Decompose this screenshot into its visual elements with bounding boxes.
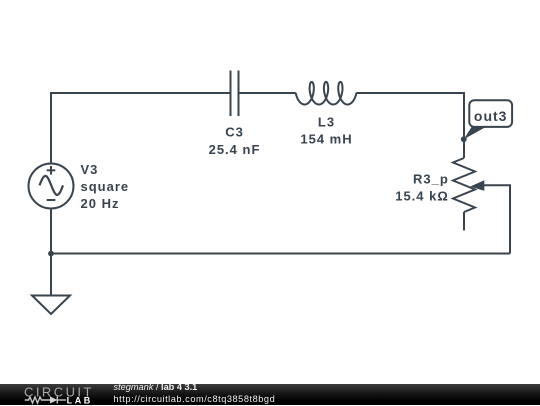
wire node to resistor top (463, 139, 465, 158)
svg-text:20 Hz: 20 Hz (81, 196, 120, 211)
V3 plus sign (47, 166, 56, 175)
svg-text:LAB: LAB (67, 395, 93, 405)
svg-text:C3: C3 (225, 125, 244, 140)
wire capacitor to inductor (240, 92, 296, 94)
footer bar (0, 384, 540, 406)
wire inductor to right corner, down to node (356, 93, 464, 137)
resistor R3_p zigzag (453, 158, 475, 212)
svg-text:25.4 nF: 25.4 nF (209, 142, 261, 157)
capacitor C3 (231, 71, 239, 117)
wiper tail wire (481, 185, 511, 253)
CircuitLab logo (0, 384, 100, 405)
credit text (114, 382, 276, 405)
svg-text:square: square (81, 179, 130, 194)
wiper arrow of potentiometer (470, 180, 484, 191)
wire top from source to capacitor (51, 93, 230, 164)
svg-text:out3: out3 (474, 108, 508, 124)
voltage source V3 circle (29, 164, 74, 209)
bottom wire (51, 253, 510, 255)
svg-text:V3: V3 (81, 162, 99, 177)
svg-text:L3: L3 (318, 114, 335, 129)
node dot at source bottom (48, 251, 54, 257)
V3 sine symbol (40, 176, 64, 195)
ground symbol (32, 296, 70, 315)
svg-text:R3_p: R3_p (413, 172, 449, 187)
node dot at out3 (461, 136, 467, 142)
out3 flag box (469, 100, 512, 127)
resistor bottom stub (463, 212, 465, 231)
svg-text:15.4 kΩ: 15.4 kΩ (395, 189, 449, 204)
inductor L3 (296, 82, 357, 105)
out3 flag tail (464, 126, 489, 140)
source wire bottom to ground (50, 209, 52, 296)
V3 minus sign (47, 199, 56, 201)
svg-text:154 mH: 154 mH (300, 131, 352, 146)
